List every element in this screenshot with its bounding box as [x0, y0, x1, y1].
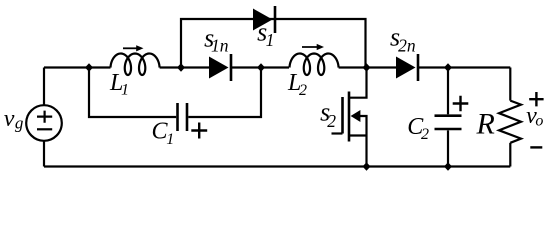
node C2 bottom junction — [444, 162, 452, 171]
wire main rail right segment — [418, 66, 510, 68]
svg-text:2: 2 — [299, 82, 307, 99]
wire R branch top — [509, 68, 511, 101]
inductor L1 coil — [111, 54, 160, 76]
label vo — [526, 103, 543, 129]
inductor L1 current arrow — [123, 45, 144, 51]
wire bottom rail — [44, 165, 510, 167]
wire top loop — [181, 19, 366, 68]
diode s1 — [253, 6, 275, 33]
svg-text:g: g — [15, 114, 24, 133]
label L2 — [287, 70, 307, 99]
inductor L2 coil — [290, 54, 339, 76]
wire C2 branch top — [447, 68, 449, 115]
label C1 — [152, 119, 175, 148]
label s2n — [390, 23, 416, 56]
wire main rail between L2 and s2n — [339, 66, 396, 68]
svg-text:1n: 1n — [211, 36, 229, 56]
label s1n — [204, 24, 229, 56]
svg-text:v: v — [4, 106, 15, 132]
capacitor C1 plus sign — [191, 123, 207, 139]
node vo plus sign — [529, 92, 543, 106]
diode s1n — [209, 54, 231, 81]
node drain junction — [363, 63, 371, 72]
diode s2n — [396, 54, 418, 81]
wire C1 branch left — [89, 68, 176, 118]
capacitor C2 plus sign — [453, 96, 469, 112]
svg-text:1: 1 — [166, 131, 174, 148]
wire C2 branch bottom — [447, 130, 449, 166]
source vg minus sign — [37, 128, 52, 130]
label L1 — [109, 70, 129, 99]
label s2 — [320, 98, 336, 131]
inductor L2 current arrow — [302, 44, 324, 50]
svg-text:1: 1 — [266, 30, 275, 50]
svg-text:o: o — [535, 113, 543, 130]
source vg plus sign — [37, 111, 52, 123]
node C1-left tap junction — [85, 63, 93, 72]
wire R branch bottom — [509, 143, 511, 167]
wire main rail left segment — [44, 66, 111, 68]
resistor R zigzag — [499, 101, 521, 143]
label vg — [4, 106, 24, 133]
label C2 — [407, 114, 429, 143]
label s1 — [257, 18, 274, 51]
node vo minus sign — [530, 146, 542, 148]
svg-text:2: 2 — [421, 126, 429, 143]
svg-text:2: 2 — [327, 111, 336, 131]
capacitor C2 plates — [435, 116, 462, 129]
wire vg bottom lead — [43, 141, 45, 167]
svg-text:2n: 2n — [398, 36, 416, 56]
svg-text:R: R — [476, 108, 495, 141]
node C1-right tap junction — [257, 63, 265, 72]
label R — [476, 108, 495, 141]
capacitor C1 plates — [178, 103, 188, 131]
node source bottom junction — [363, 162, 371, 171]
transistor s2 MOSFET — [332, 68, 367, 167]
wire vg top lead — [43, 68, 45, 106]
wire C1 branch right — [188, 68, 261, 118]
wire main rail between s1n and L2 — [231, 66, 289, 68]
source vg circle — [26, 105, 62, 141]
wire main rail between L1 and s1n — [160, 66, 209, 68]
svg-text:1: 1 — [121, 82, 129, 99]
node C2 top junction — [444, 63, 452, 72]
node top-loop left junction — [177, 63, 185, 72]
